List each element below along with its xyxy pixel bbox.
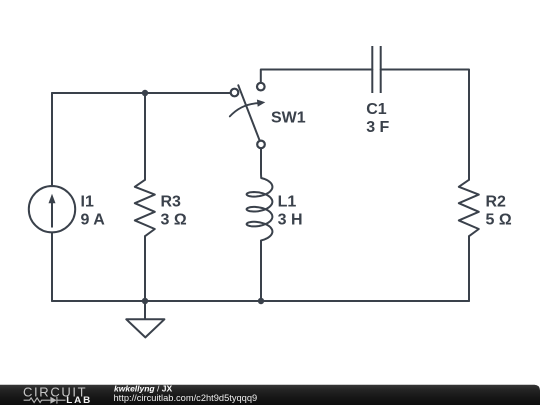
ground — [144, 301, 146, 319]
svg-text:3 Ω: 3 Ω — [161, 211, 187, 228]
svg-text:SW1: SW1 — [271, 110, 306, 127]
svg-text:L1: L1 — [278, 194, 297, 211]
wire switch top to C1 — [261, 70, 373, 83]
resistor R3 — [135, 180, 155, 236]
wire C1 to right corner — [381, 70, 469, 180]
switch SW1 — [238, 85, 259, 140]
wire bottom horizontal — [52, 300, 469, 302]
svg-text:3 H: 3 H — [278, 211, 303, 228]
node junction top (R3 tap) — [142, 90, 148, 96]
wire R3 bottom lead — [144, 236, 146, 301]
svg-text:LAB: LAB — [66, 396, 92, 405]
node junction bottom-middle (L1 tap) — [258, 298, 264, 304]
svg-text:http://circuitlab.com/c2ht9d5t: http://circuitlab.com/c2ht9d5tyqqq9 — [114, 393, 258, 403]
logo doodle wire + resistor — [24, 397, 66, 404]
wire R3 top lead — [144, 93, 146, 180]
capacitor C1 — [371, 46, 373, 93]
svg-text:9 A: 9 A — [81, 211, 106, 228]
node junction bottom-left (ground tap) — [142, 298, 148, 304]
wire left vertical upper — [51, 93, 53, 186]
logo doodle diode — [50, 397, 56, 404]
svg-text:3 F: 3 F — [366, 119, 389, 136]
wire left vertical lower — [51, 232, 53, 301]
wire R2 bottom lead — [468, 236, 470, 301]
footer bar — [0, 385, 540, 405]
inductor L1 — [247, 148, 273, 301]
current source I1 — [29, 186, 75, 232]
wire top-left horizontal — [52, 92, 231, 94]
svg-text:R2: R2 — [486, 194, 507, 211]
svg-text:R3: R3 — [161, 194, 182, 211]
resistor R2 — [459, 180, 479, 236]
svg-text:5 Ω: 5 Ω — [486, 211, 512, 228]
svg-text:C1: C1 — [366, 101, 387, 118]
svg-text:I1: I1 — [81, 194, 94, 211]
